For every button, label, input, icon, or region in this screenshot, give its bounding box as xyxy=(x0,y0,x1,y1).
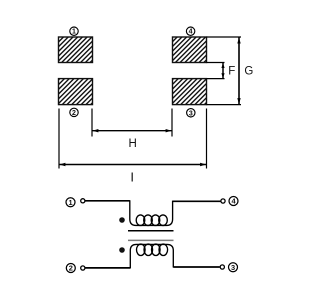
wire pin1 to winding L1 xyxy=(85,200,130,202)
polarity dot L1 xyxy=(119,217,125,223)
svg-text:3: 3 xyxy=(231,263,235,272)
wire pin2 to winding L2 xyxy=(85,267,130,269)
terminal pin 2 xyxy=(81,266,85,270)
winding L2 (bottom coil) xyxy=(130,244,173,268)
svg-text:1: 1 xyxy=(68,198,72,207)
pad pin label 2 xyxy=(70,108,78,117)
svg-text:G: G xyxy=(244,65,253,77)
svg-text:4: 4 xyxy=(189,29,193,36)
terminal pin 3 xyxy=(220,265,224,269)
pad 1 (top-left land) xyxy=(59,37,93,63)
svg-text:2: 2 xyxy=(69,264,73,273)
pad pin label 1 xyxy=(70,27,78,36)
pad 4 (top-right land) xyxy=(173,37,207,63)
winding L1 (top coil) xyxy=(130,200,173,225)
svg-text:2: 2 xyxy=(72,110,76,117)
pin 2 label xyxy=(66,264,75,273)
core line 2 xyxy=(128,239,174,241)
svg-text:1: 1 xyxy=(72,29,76,36)
wire winding L1 to pin 4 xyxy=(173,200,221,202)
terminal pin 1 xyxy=(81,199,85,203)
pin 1 label xyxy=(66,198,75,207)
pad pin label 3 xyxy=(187,109,195,118)
terminal pin 4 xyxy=(221,199,225,203)
wire winding L2 to pin 3 xyxy=(173,266,220,268)
core line 1 xyxy=(128,230,174,232)
dimension G xyxy=(207,37,242,105)
dimension F xyxy=(207,63,225,79)
svg-text:I: I xyxy=(130,169,134,184)
pad 3 (bottom-right land) xyxy=(173,79,207,105)
dimension H xyxy=(92,109,172,137)
polarity dot L2 xyxy=(119,247,125,253)
pin 4 label xyxy=(229,197,238,206)
pad pin label 4 xyxy=(186,27,194,36)
pad 2 (bottom-left land) xyxy=(59,79,93,105)
dimension I xyxy=(59,109,207,169)
svg-text:F: F xyxy=(228,65,235,77)
svg-text:3: 3 xyxy=(189,110,193,117)
svg-text:H: H xyxy=(128,138,136,150)
pin 3 label xyxy=(229,263,238,272)
